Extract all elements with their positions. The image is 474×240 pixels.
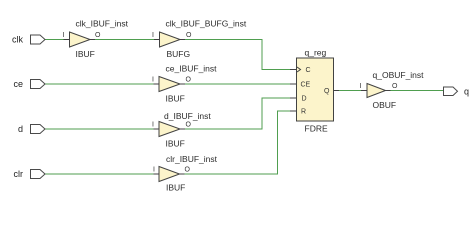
svg-text:O: O [95, 32, 101, 39]
svg-text:O: O [186, 122, 192, 129]
svg-text:IBUF: IBUF [166, 94, 185, 104]
svg-text:IBUF: IBUF [166, 139, 185, 149]
svg-text:clr: clr [14, 169, 24, 179]
svg-text:OBUF: OBUF [373, 100, 397, 110]
svg-text:clk: clk [12, 35, 23, 45]
svg-text:d: d [18, 124, 23, 134]
svg-text:clk_IBUF_inst: clk_IBUF_inst [76, 19, 129, 29]
svg-text:I: I [63, 32, 65, 39]
svg-text:C: C [306, 67, 311, 74]
svg-text:d_IBUF_inst: d_IBUF_inst [164, 111, 211, 121]
svg-text:CE: CE [301, 82, 311, 89]
svg-text:q: q [464, 87, 469, 97]
svg-text:D: D [302, 96, 307, 103]
svg-text:q_reg: q_reg [305, 48, 327, 58]
svg-text:IBUF: IBUF [76, 49, 95, 59]
svg-text:ce_IBUF_inst: ce_IBUF_inst [166, 64, 218, 74]
svg-text:R: R [301, 109, 306, 116]
svg-text:O: O [392, 83, 398, 90]
svg-text:I: I [360, 83, 362, 90]
svg-text:I: I [152, 77, 154, 84]
svg-text:BUFG: BUFG [167, 49, 191, 59]
svg-text:IBUF: IBUF [166, 183, 185, 193]
svg-text:FDRE: FDRE [305, 124, 328, 134]
svg-text:q_OBUF_inst: q_OBUF_inst [373, 70, 425, 80]
svg-text:I: I [152, 32, 154, 39]
svg-text:O: O [185, 167, 191, 174]
svg-text:I: I [152, 122, 154, 129]
svg-text:ce: ce [13, 79, 23, 89]
svg-text:I: I [153, 167, 155, 174]
svg-text:clr_IBUF_inst: clr_IBUF_inst [166, 154, 218, 164]
svg-text:O: O [186, 77, 192, 84]
svg-text:O: O [186, 32, 192, 39]
svg-text:clk_IBUF_BUFG_inst: clk_IBUF_BUFG_inst [166, 19, 247, 29]
svg-text:Q: Q [324, 88, 330, 95]
